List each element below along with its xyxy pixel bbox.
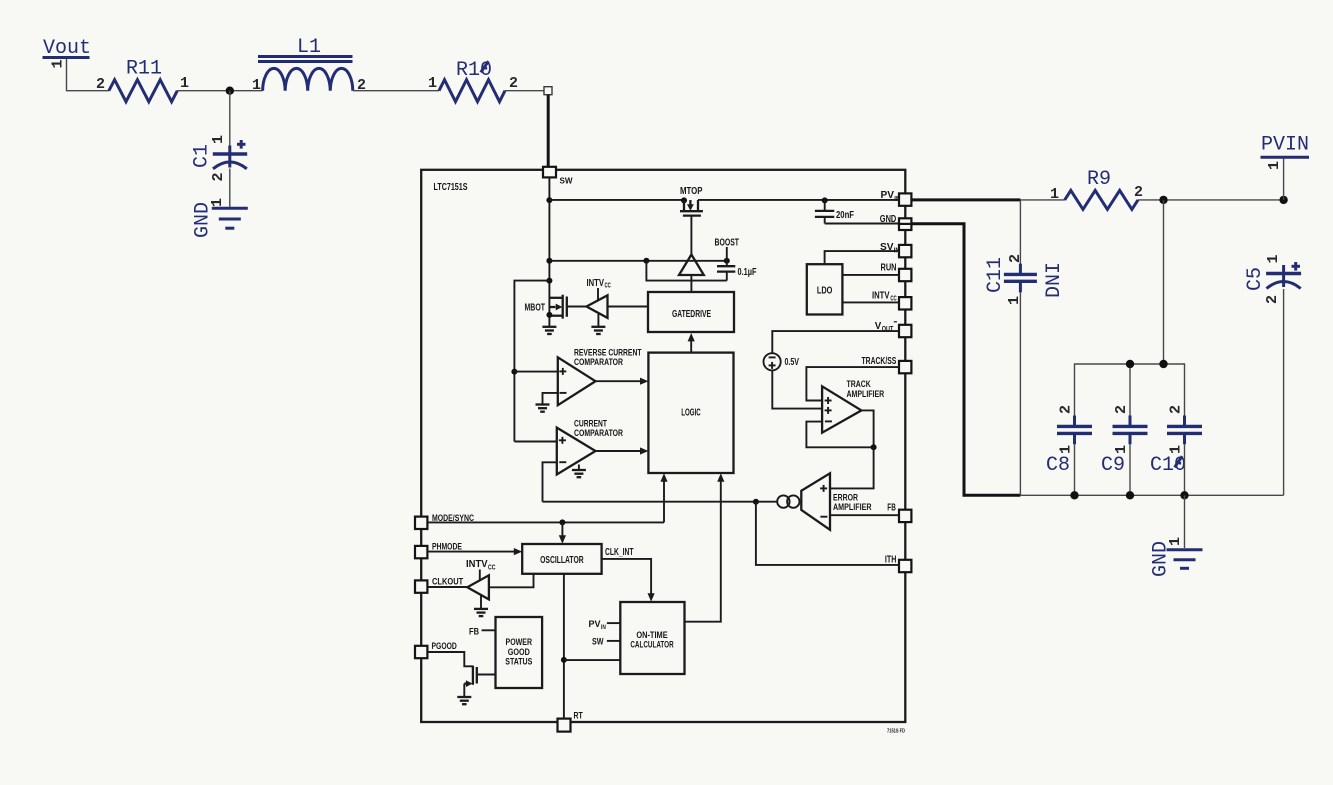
pin RT [558,710,583,731]
junction node A [226,87,234,95]
svg-text:2: 2 [1134,184,1143,201]
ground GND left [192,202,248,238]
block OSCILLATOR [522,544,601,574]
op-amp track amplifier [822,379,884,433]
pin SW [543,167,573,186]
capacitor 20nF [815,200,854,223]
node boost cap top [724,258,730,264]
wire C5 to bottom rail [1283,289,1285,495]
junction R9/C8 bank [1159,196,1167,204]
wire CLKOUT pin to buffer [428,586,468,588]
wire current comparator minus to ITH line [543,462,557,501]
svg-text:TRACK/SS: TRACK/SS [862,356,897,367]
op-amp CLKOUT buffer [467,575,489,599]
wire to current comparator plus [514,441,556,443]
op-amp error amplifier [801,473,871,530]
wire 0.5V source to track amp input [772,370,822,408]
block ON-TIME CALCULATOR [620,602,684,674]
wire SVIN pin to LDO [825,251,899,264]
node SW/top rail [546,197,552,203]
ground GND right [1150,541,1203,577]
label BOOST [715,238,740,261]
label INTVCC clkout buffer [466,559,496,580]
label SW on-time input [592,637,620,647]
svg-text:COMPARATOR: COMPARATOR [574,428,623,439]
ground MBOT [542,327,556,334]
wire FET source to ground [463,684,465,697]
svg-text:SW: SW [560,176,574,186]
node SW/MBOT branch [546,278,552,284]
svg-text:0.1µF: 0.1µF [738,267,757,278]
block LOGIC [648,353,733,473]
label INTVCC buffer supply [587,278,611,301]
svg-text:2: 2 [1264,295,1281,304]
svg-text:R11: R11 [126,58,162,81]
svg-text:2: 2 [96,76,105,93]
wire C10 bottom lead [1184,444,1186,495]
ground INTVCC buffer [591,313,605,334]
svg-text:FB: FB [887,503,896,514]
svg-text:GATEDRIVE: GATEDRIVE [672,308,711,320]
current mirror circles [777,495,799,507]
svg-text:RUN: RUN [881,263,897,274]
pin SVIN [880,242,911,257]
wire SW corner down to SW pin [547,95,550,167]
wire track amp output loop [861,410,873,447]
label FB power good [469,626,496,637]
wire track amp feedback [806,422,873,448]
wire MODE/SYNC to oscillator arrow [559,522,566,543]
wire C9 top lead [1129,364,1131,419]
svg-text:7151S FD: 7151S FD [887,729,905,735]
wire C11 vertical bottom [1019,292,1021,495]
svg-text:CLKOUT: CLKOUT [432,577,463,588]
transistor Q3 PGOOD FET [464,666,495,687]
wire to right GND [1184,495,1186,548]
wire PHMODE to oscillator arrow [428,548,523,555]
wire SW vertical [548,177,550,326]
wire bottom ground rail [1020,494,1283,496]
node ITH branch [753,499,759,505]
wire R11 pin1 to node A [177,90,262,92]
wire PVIN port down [1283,159,1285,200]
wire R10 pin2 to SW corner [505,90,544,92]
pin CLKOUT [415,577,463,593]
svg-text:BOOST: BOOST [715,238,740,249]
wire buffer input from oscillator [489,574,534,588]
pin PGOOD [415,641,457,658]
wire C9 bottom lead [1129,444,1131,495]
svg-text:C11: C11 [984,257,1007,293]
wire to ITH pin [756,502,899,565]
capacitor C8 [1046,416,1092,478]
svg-text:CC: CC [605,283,611,290]
wire top rail SW to MTOP [549,199,684,201]
wire error amp minus to FB pin [830,514,899,516]
wire reverse comparator minus to ground [543,393,558,404]
svg-text:INTV: INTV [587,278,605,289]
ground current comparator [572,465,586,478]
svg-text:1: 1 [50,59,67,68]
svg-text:PVIN: PVIN [1261,134,1309,157]
ground PGOOD FET [457,697,471,704]
wire MODE/SYNC to LOGIC arrow [660,473,667,522]
svg-text:2: 2 [509,75,518,92]
block POWER GOOD STATUS [496,617,543,688]
wire L1 pin2 to R10 pin1 [353,90,439,92]
svg-text:INTV: INTV [872,291,890,302]
pin RUN [881,263,912,282]
resistor R11 [109,58,177,102]
op-amp INTVCC buffer [587,295,608,318]
block LDO [807,264,843,314]
pin INTVCC [872,291,911,310]
wire cap bank top rail [1075,364,1185,416]
svg-text:INTV: INTV [466,559,488,570]
node SW corner marker [544,87,552,95]
pin VOUT- [875,321,912,337]
pin PHMODE [415,542,462,559]
pin TRACK/SS [862,356,912,373]
wire CLK_INT to on-time calculator [602,559,655,602]
port Vout [43,37,92,60]
wire LOGIC to GATEDRIVE arrow [688,333,695,353]
node track amp output [871,444,877,450]
svg-text:AMPLIFIER: AMPLIFIER [847,389,885,400]
svg-text:1: 1 [428,75,437,92]
svg-text:C1: C1 [191,144,214,168]
wire boost loop [646,261,726,281]
label PVIN on-time input [589,619,621,631]
svg-text:C9: C9 [1101,454,1125,477]
node boost loop left [643,258,649,264]
svg-text:IN: IN [601,624,606,631]
wire SW to comparator column [514,281,549,442]
wire PGOOD pin to FET [428,652,473,666]
wire MTOP gate to boost driver [690,216,692,255]
svg-text:C8: C8 [1046,454,1070,477]
svg-text:0.5V: 0.5V [785,357,800,368]
svg-text:OSCILLATOR: OSCILLATOR [540,555,584,566]
pin FB [887,503,911,522]
wire buffer input from GATEDRIVE [608,306,649,308]
svg-text:1: 1 [1168,445,1185,454]
junction R9 branch top rail [1159,360,1167,368]
junction PVIN/C5 [1279,196,1287,204]
svg-text:1: 1 [1167,537,1184,546]
wire MODE/SYNC line [428,521,664,523]
capacitor C1 [191,140,248,169]
transistor Q1 MTOP [680,186,703,216]
svg-text:1: 1 [252,77,261,94]
ground reverse comparator [536,405,550,412]
port PVIN [1261,134,1310,158]
svg-text:LDO: LDO [817,286,833,297]
wire VOUT pin to 0.5V source [772,331,899,353]
svg-text:1: 1 [1113,445,1130,454]
svg-text:2: 2 [210,172,227,181]
wire 20nF to GND pin [825,223,899,225]
op-amp reverse current comparator [558,347,642,405]
svg-text:OUT: OUT [882,326,894,333]
wire node A down to C1 [229,91,231,146]
svg-text:ITH: ITH [885,555,897,566]
node MODE/SYNC oscillator branch [559,519,565,525]
svg-text:AMPLIFIER: AMPLIFIER [833,502,872,513]
svg-text:CALCULATOR: CALCULATOR [630,640,673,651]
op-amp boost driver triangle [679,255,704,276]
transistor Q2 MBOT [525,295,567,319]
wire LDO to INTVCC pin [842,301,899,303]
junction C9 bottom [1126,491,1134,499]
svg-text:2: 2 [357,77,366,94]
svg-text:IN: IN [894,246,900,255]
svg-text:PV: PV [589,619,601,629]
junction C10 bottom [1180,491,1188,499]
svg-text:1: 1 [180,75,189,92]
svg-text:MTOP: MTOP [680,186,703,197]
0.5V reference source [764,353,800,370]
svg-text:CC: CC [488,565,496,572]
node reverse comparator branch [511,369,517,375]
wire driver to GATEDRIVE [690,275,692,292]
wire top rail MTOP to PVIN pin [698,199,899,201]
capacitor 0.1uF [717,261,757,281]
svg-text:1: 1 [1058,445,1075,454]
svg-text:FB: FB [469,626,479,637]
capacitor C10 [1150,416,1202,478]
svg-text:2: 2 [1007,254,1024,263]
wire on-time calculator to LOGIC [685,473,725,621]
wire R9 to PVIN port line [1138,199,1284,201]
svg-text:DNI: DNI [1043,262,1066,298]
pin MODE/SYNC [415,513,474,529]
svg-text:2: 2 [1058,405,1075,414]
inductor L1 [258,36,353,91]
node SW/boost rail [546,258,552,264]
svg-text:LOGIC: LOGIC [681,407,701,419]
wire BOOST rail [549,260,726,262]
svg-text:20nF: 20nF [836,210,854,221]
wire C11 node to R9 [1020,199,1064,201]
wire LDO to RUN pin [842,274,899,276]
node RT / on-time branch [561,657,567,663]
wire GND pin thick route [911,224,1020,496]
svg-text:1: 1 [1266,161,1283,170]
resistor R10 [439,59,505,102]
junction C8 bottom [1070,491,1078,499]
wire Vout to R11 pin2 [67,59,110,91]
op-amp U1 LTC7151S outline [421,170,905,722]
svg-text:STATUS: STATUS [505,656,532,667]
svg-text:1: 1 [1265,254,1282,263]
resistor R9 [1065,168,1138,209]
svg-text:COMPARATOR: COMPARATOR [574,357,623,368]
wire RT branch to on-time calculator [564,659,620,661]
wire to reverse comparator plus [514,371,557,373]
svg-text:1: 1 [210,135,227,144]
wire PVIN pin to C11 node (thick) [911,198,1020,201]
wire oscillator to RT pin [563,574,565,719]
node 20nF tap [822,197,828,203]
wire track amp output to error amp plus [830,447,874,488]
svg-text:IN: IN [894,194,900,203]
svg-text:1: 1 [1050,186,1059,203]
capacitor C5 [1244,262,1301,291]
pin PVIN [881,190,912,206]
pin GND (double pad) [880,214,912,230]
wire MBOT gate to buffer [567,306,587,308]
svg-text:CLK_INT: CLK_INT [605,547,634,558]
svg-text:SW: SW [592,637,604,647]
svg-text:C5: C5 [1244,267,1267,291]
pin ITH [885,555,912,573]
wire C11 vertical top [1019,200,1021,264]
wire reverse comparator output to LOGIC [596,378,649,385]
capacitor C11 [984,257,1037,293]
svg-text:2: 2 [1168,405,1185,414]
wire error amp output to comparator [543,501,778,503]
svg-text:MBOT: MBOT [525,303,546,314]
capacitor C9 [1101,416,1148,478]
op-amp current comparator [557,419,623,475]
wire C8 bottom lead [1074,444,1076,495]
wire current comparator output to LOGIC [596,447,649,454]
junction C9 top [1126,360,1134,368]
svg-text:LTC7151S: LTC7151S [434,181,468,193]
block GATEDRIVE [648,292,734,332]
svg-text:PGOOD: PGOOD [432,641,457,652]
ground CLKOUT buffer [474,594,488,616]
svg-text:R9: R9 [1087,168,1111,191]
svg-text:1: 1 [209,198,226,207]
wire TRACK/SS pin to track amp input [806,367,899,400]
svg-text:RT: RT [574,710,583,721]
wire C1 to GND [229,169,231,207]
svg-text:2: 2 [1113,405,1130,414]
wire R9 junction down to cap bank [1163,200,1165,364]
